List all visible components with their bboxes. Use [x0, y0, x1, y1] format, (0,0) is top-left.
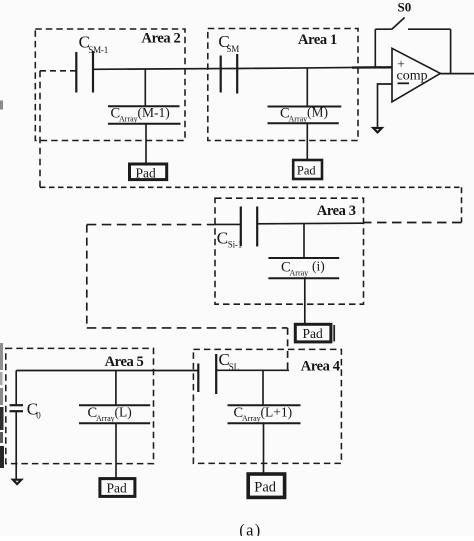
capacitor C_SM — [221, 54, 238, 94]
capacitor C_Array(i) — [268, 258, 339, 278]
wire C_Array(L) to pad — [115, 423, 117, 478]
pad (below C_Array(i)) — [295, 324, 331, 342]
pads-region dashed boundary (left edge) — [39, 71, 41, 188]
svg-text:Pad: Pad — [303, 326, 324, 341]
wire feedback right vertical — [450, 29, 452, 74]
wire C_SL to node — [216, 369, 289, 371]
wire node to C_Array(i) — [303, 224, 305, 259]
svg-text:Pad: Pad — [297, 164, 317, 178]
svg-text:Array: Array — [290, 269, 309, 278]
dashed connector box (bottom edge) — [87, 327, 288, 329]
svg-text:Array: Array — [242, 414, 261, 423]
wire bottom bus area5 to C_SL — [16, 370, 198, 372]
svg-text:Array: Array — [119, 115, 138, 124]
svg-text:Pad: Pad — [254, 479, 276, 495]
C_Si-1 value label — [217, 229, 242, 250]
wire node to C_Array(L+1) — [262, 370, 264, 405]
wire C_Si-1 to area3 right edge — [257, 222, 363, 225]
area 5 dashed box — [6, 348, 154, 463]
capacitor C_Array(L+1) — [228, 405, 301, 423]
svg-text:Array: Array — [289, 115, 308, 124]
svg-text:(a): (a) — [239, 520, 261, 536]
dashed connector box (top edge to Area 3) — [87, 224, 215, 226]
svg-text:Pad: Pad — [107, 481, 128, 496]
wire C_Array(i) to pad — [304, 278, 306, 324]
dashed connector to Area 3 — [364, 222, 462, 224]
wire C_Array(M) to pad — [306, 123, 308, 160]
C_Array(L) value label — [88, 404, 132, 423]
svg-text:Area 2: Area 2 — [142, 31, 181, 47]
pad (below C_Array(M)) — [293, 160, 322, 179]
svg-text:(L+1): (L+1) — [261, 404, 293, 419]
dash segment right of pad — [333, 325, 335, 342]
dashed connector box (left edge) — [86, 225, 88, 328]
capacitor C0 — [10, 405, 23, 411]
wire feedback top right — [408, 28, 451, 30]
svg-text:S0: S0 — [398, 0, 412, 15]
pad (below C_Array(L+1)) — [248, 474, 284, 497]
svg-text:Si-1: Si-1 — [228, 240, 242, 250]
svg-text:Array: Array — [96, 414, 115, 423]
C_Array(L+1) value label — [234, 404, 293, 423]
area 2 dashed box — [35, 29, 185, 141]
wire node to C_Array(M-1) — [144, 69, 146, 106]
svg-text:C: C — [217, 229, 228, 248]
wire C_Array(L+1) to pad — [263, 423, 265, 473]
capacitor C_SL — [198, 354, 216, 394]
comparator minus sign — [398, 82, 410, 84]
area 1 dashed box — [208, 29, 358, 141]
svg-text:(L): (L) — [115, 404, 132, 419]
pad (below C_Array(L)) — [100, 479, 135, 497]
op-amp comparator — [392, 48, 440, 102]
wire into C_Si-1 — [215, 223, 241, 225]
wire comparator output — [440, 73, 474, 75]
C_SL value label — [219, 350, 239, 372]
pads-region dashed boundary (top segment to C_SM-1) — [40, 70, 76, 72]
svg-text:0: 0 — [36, 410, 41, 420]
scan smudge left edge — [0, 101, 4, 469]
capacitor C_Si-1 — [241, 207, 257, 247]
ground (below C0) — [13, 480, 21, 484]
svg-text:(M): (M) — [307, 105, 328, 120]
switch S0 blade — [392, 18, 405, 30]
svg-text:SM: SM — [226, 44, 239, 54]
wire comparator minus input — [378, 84, 393, 127]
svg-text:Area 4: Area 4 — [301, 358, 340, 374]
svg-text:comp: comp — [397, 69, 428, 84]
wire bold comparator + input — [352, 66, 392, 69]
area 4 dashed box — [193, 349, 341, 463]
wire feedback left vertical — [374, 29, 376, 66]
C_Array(M) value label — [280, 105, 328, 124]
svg-text:Area 1: Area 1 — [298, 32, 337, 48]
capacitor C_Array(M-1) — [108, 106, 181, 124]
wire C0 bottom — [15, 411, 17, 479]
svg-text:(M-1): (M-1) — [138, 105, 170, 120]
svg-text:(i): (i) — [312, 259, 325, 274]
pad (below C_Array(M-1)) — [130, 164, 167, 180]
wire top bus — [93, 67, 392, 69]
C_Array(i) value label — [281, 259, 325, 278]
dashed connector descender to Area 4 — [287, 328, 289, 370]
ground — [373, 128, 382, 132]
area 3 dashed box — [215, 198, 364, 304]
svg-text:Area 3: Area 3 — [317, 203, 356, 219]
capacitor C_SM-1 — [76, 51, 93, 93]
svg-text:Pad: Pad — [136, 165, 157, 180]
C0 value label — [27, 399, 41, 420]
svg-text:SM-1: SM-1 — [88, 45, 108, 55]
wire node to C_Array(L) — [115, 371, 117, 406]
C_Array(M-1) value label — [111, 105, 170, 124]
capacitor C_Array(M) — [268, 107, 342, 124]
wire feedback top left — [375, 28, 392, 30]
wire C0 top — [15, 371, 17, 405]
pads-region dashed boundary (bottom edge) — [40, 186, 462, 188]
wire C_Array(M-1) to pad — [145, 124, 147, 164]
pads-region dashed boundary (right descender) — [461, 187, 463, 222]
svg-text:Area 5: Area 5 — [105, 354, 144, 370]
wire node to C_Array(M) — [306, 68, 308, 107]
capacitor C_Array(L) — [79, 405, 150, 423]
C_SM value label — [218, 32, 239, 54]
C_SM-1 value label — [79, 32, 108, 55]
